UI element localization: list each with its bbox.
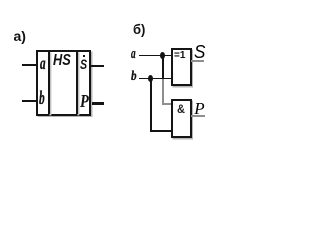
block function label HS	[53, 52, 71, 70]
junction node on b	[148, 75, 153, 82]
pin label P (part a)	[80, 91, 89, 112]
output label S (part b)	[194, 42, 205, 63]
wire: branch from b junction down	[150, 79, 152, 132]
wire: output S (part a)	[91, 65, 104, 67]
wire: a to XOR	[139, 55, 172, 57]
XOR gate U1 box	[171, 48, 192, 86]
wire: b to XOR	[139, 78, 172, 80]
AND gate U2 box	[171, 99, 192, 138]
label b)	[133, 21, 145, 37]
pin label S	[80, 56, 87, 72]
output label P (part b)	[194, 99, 204, 119]
XOR label =1	[174, 50, 185, 61]
wire: input a (part a)	[22, 64, 36, 66]
dot above S	[83, 55, 85, 57]
pin label a (part a)	[40, 53, 46, 74]
wire: S output (gray)	[191, 60, 204, 62]
junction node on a	[160, 52, 165, 59]
half-adder block HS (part a)	[36, 50, 91, 116]
input label b (part b)	[131, 69, 137, 85]
AND label &	[177, 102, 185, 116]
wire: into AND upper input (gray)	[162, 103, 171, 105]
divider between input column and HS column	[48, 51, 50, 114]
wire: branch from a junction down (gray lower)	[162, 79, 164, 105]
label a)	[14, 28, 26, 44]
wire: input b (part a)	[22, 100, 36, 102]
wire: into AND lower input	[150, 130, 172, 132]
wire: output P thick (part a)	[92, 102, 104, 105]
input label a (part b)	[131, 46, 136, 63]
wire: P output (gray)	[191, 115, 205, 118]
divider between HS column and output column	[76, 51, 78, 114]
wire: branch from a junction down (black upper)	[162, 55, 164, 79]
pin label b (part a)	[39, 88, 45, 110]
